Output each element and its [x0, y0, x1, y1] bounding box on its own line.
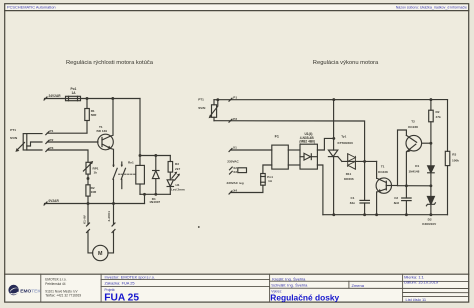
- svg-text:230VAC: 230VAC: [227, 159, 239, 163]
- junction: [332, 137, 335, 140]
- svg-text:BD 139: BD 139: [97, 129, 108, 133]
- svg-text:X4: X4: [233, 189, 237, 193]
- junction: [86, 97, 89, 100]
- potentiometer PT1 right: [211, 100, 218, 121]
- svg-text:F1: F1: [275, 134, 279, 138]
- svg-text:SV/N: SV/N: [198, 106, 206, 110]
- svg-text:10R: 10R: [91, 190, 97, 194]
- svg-text:Petrilenská 44: Petrilenská 44: [45, 282, 65, 286]
- speck: [198, 226, 200, 228]
- svg-text:C2: C2: [394, 196, 398, 200]
- wire top rail: [214, 100, 448, 152]
- svg-text:P1: P1: [233, 95, 237, 99]
- junction: [154, 154, 157, 157]
- pin P3: [46, 146, 54, 152]
- wires F1 to U1: [288, 150, 300, 165]
- wire U1 to Ty1: [317, 138, 333, 150]
- junction: [363, 213, 366, 216]
- connector PT1 left: [18, 134, 43, 150]
- svg-text:2k7: 2k7: [175, 167, 180, 171]
- filter F1: [272, 145, 289, 169]
- relay coil Re1: [136, 156, 145, 195]
- svg-text:Investor:: Investor:: [105, 274, 120, 279]
- wire P1 to R1: [47, 132, 87, 134]
- svg-text:230VAC reg: 230VAC reg: [227, 181, 244, 185]
- junction: [405, 213, 408, 216]
- wire T1 emitter down: [111, 149, 114, 167]
- junction: [112, 202, 115, 205]
- svg-text:KC238: KC238: [408, 125, 418, 129]
- svg-text:EMOTEK s.r.o.: EMOTEK s.r.o.: [45, 277, 66, 281]
- svg-text:56R: 56R: [91, 113, 97, 117]
- capacitor C2: [402, 186, 411, 215]
- svg-text:Dátum: 15.10.2019: Dátum: 15.10.2019: [404, 280, 439, 285]
- wire T1 collector: [111, 99, 113, 137]
- pin X3: [230, 170, 238, 174]
- logo EMOTEK: [8, 285, 41, 295]
- wire P2 to T1 base: [47, 141, 98, 143]
- pin P1 right: [229, 95, 237, 101]
- svg-text:Regulácia rýchlosti motora kot: Regulácia rýchlosti motora kotúča: [66, 60, 154, 66]
- transistor T2: [406, 135, 431, 185]
- junction: [363, 160, 366, 163]
- svg-text:D11: D11: [346, 172, 352, 176]
- svg-text:Tel/fax: +421 32 7716919: Tel/fax: +421 32 7716919: [45, 294, 81, 298]
- svg-text:SV/N: SV/N: [10, 136, 18, 140]
- svg-text:Kreslil: Ing. Švehla: Kreslil: Ing. Švehla: [272, 277, 306, 282]
- junction: [429, 213, 432, 216]
- svg-text:1N4007: 1N4007: [149, 200, 160, 204]
- zener D2: [426, 186, 435, 215]
- svg-text:K300/10V: K300/10V: [422, 222, 437, 226]
- svg-text:2-AVK1: 2-AVK1: [107, 211, 111, 222]
- pin P2 right: [229, 117, 237, 122]
- wire to motor K1-AV: [87, 204, 93, 253]
- fuse Po1 right: [261, 165, 272, 185]
- junction: [429, 142, 432, 145]
- svg-text:(MB2 4B6): (MB2 4B6): [299, 139, 315, 143]
- pin P1: [46, 129, 54, 135]
- address block: [45, 277, 81, 297]
- jumper X2-X3: [238, 168, 247, 173]
- svg-text:8n8: 8n8: [394, 201, 400, 205]
- junction: [87, 202, 90, 205]
- resistor R1: [85, 99, 90, 134]
- svg-text:0V2AR: 0V2AR: [49, 199, 60, 203]
- svg-text:EMOTEK spol s.r.o.: EMOTEK spol s.r.o.: [121, 274, 155, 279]
- svg-text:R3: R3: [452, 153, 456, 157]
- investor column: [105, 274, 155, 292]
- wire bottom component rail: [140, 194, 170, 203]
- wire bottom rail right: [323, 214, 448, 216]
- diode D1: [152, 156, 159, 195]
- potentiometer RP1: [83, 162, 92, 174]
- svg-text:Projekt:: Projekt:: [105, 288, 116, 292]
- svg-text:100k: 100k: [452, 158, 459, 162]
- svg-text:KT508/400: KT508/400: [338, 141, 354, 145]
- diode D1 right: [428, 143, 435, 186]
- wire 24V rail corner down: [139, 99, 141, 156]
- svg-text:P3: P3: [50, 146, 54, 150]
- svg-text:EMOTEK: EMOTEK: [20, 288, 41, 294]
- wire 24V2AR rail: [44, 97, 140, 100]
- pin X4: [229, 189, 237, 195]
- junction: [332, 98, 335, 101]
- wire 0V2AR rail: [44, 202, 145, 205]
- wire X1 to F1: [231, 149, 272, 151]
- junction: [111, 97, 114, 100]
- junction: [143, 193, 146, 196]
- svg-text:Názov súboru: Ukážka_riadkov_d: Názov súboru: Ukážka_riadkov_d informači…: [396, 6, 467, 10]
- motor M: [93, 245, 108, 260]
- resistor R2 right: [429, 100, 434, 144]
- svg-text:FUA 25: FUA 25: [104, 293, 139, 304]
- junction: [375, 213, 378, 216]
- svg-text:Regulačné dosky: Regulačné dosky: [270, 293, 339, 303]
- svg-text:C1: C1: [351, 196, 355, 200]
- junction: [139, 154, 142, 157]
- svg-text:M: M: [98, 251, 103, 257]
- svg-text:PT1: PT1: [198, 97, 204, 101]
- svg-text:84n: 84n: [350, 201, 355, 205]
- wire P2 long to C1: [214, 121, 365, 201]
- transistor T1: [98, 134, 114, 150]
- kreslil column: [271, 275, 439, 303]
- svg-text:K1-AV: K1-AV: [83, 215, 87, 224]
- svg-text:Led 2mm: Led 2mm: [171, 187, 185, 191]
- svg-text:P2: P2: [50, 138, 54, 142]
- junction: [405, 184, 408, 187]
- junction: [154, 193, 157, 196]
- wire X4 to fuse: [231, 185, 263, 192]
- svg-text:D1: D1: [415, 164, 419, 168]
- title block grid: [41, 274, 469, 302]
- svg-text:T2: T2: [411, 119, 415, 123]
- wire to motor 2-AVK1: [108, 204, 115, 253]
- junction: [216, 98, 219, 101]
- svg-text:Zákazka:: Zákazka:: [105, 280, 121, 285]
- diac D11: [348, 154, 356, 170]
- svg-text:47k: 47k: [436, 115, 441, 119]
- wire P3 to RP1: [47, 150, 88, 162]
- relay contact K1: [113, 162, 136, 204]
- optocoupler U1: [300, 144, 317, 169]
- svg-text:P1: P1: [50, 129, 54, 133]
- svg-text:Regulácia výkonu motora: Regulácia výkonu motora: [313, 60, 379, 66]
- resistor R3: [168, 156, 173, 173]
- junction: [429, 98, 432, 101]
- svg-text:T1: T1: [381, 165, 385, 169]
- pin P2: [46, 138, 54, 144]
- svg-text:PT1: PT1: [10, 128, 16, 132]
- svg-text:Schválil: Ing. Švehla: Schválil: Ing. Švehla: [271, 283, 308, 288]
- svg-text:Zmena: Zmena: [352, 283, 365, 288]
- wire gate D11 T1: [342, 160, 377, 162]
- wire base node horizontal: [398, 185, 431, 187]
- triac Ty1: [328, 100, 342, 215]
- wire U1 to bottom rail: [317, 165, 323, 215]
- svg-text:91101 Nové Mesto n.V: 91101 Nové Mesto n.V: [45, 289, 78, 293]
- svg-text:X1: X1: [233, 146, 237, 150]
- svg-text:1N4148: 1N4148: [409, 169, 420, 173]
- svg-text:R2: R2: [436, 110, 440, 114]
- transistor T1 right: [376, 161, 397, 214]
- wire coil top rail: [140, 155, 170, 157]
- svg-text:X3: X3: [233, 170, 237, 174]
- fuse Po1: [66, 96, 81, 100]
- capacitor C1: [360, 200, 369, 214]
- wire T1 base to T2 base column: [398, 130, 407, 186]
- svg-text:Re1: Re1: [128, 160, 134, 164]
- svg-text:24V2AR: 24V2AR: [49, 94, 62, 98]
- junction: [429, 184, 432, 187]
- svg-text:1k: 1k: [94, 171, 98, 175]
- junction: [332, 213, 335, 216]
- svg-text:KC238: KC238: [378, 170, 388, 174]
- resistor R3 right: [445, 151, 450, 214]
- LED H1: [167, 172, 179, 194]
- pin X1: [229, 146, 237, 152]
- svg-text:R3: R3: [175, 162, 179, 166]
- svg-text:FUA 25: FUA 25: [122, 280, 135, 285]
- svg-text:KR206: KR206: [344, 177, 354, 181]
- svg-text:List čislo 11: List čislo 11: [406, 297, 427, 302]
- pin X2: [230, 166, 238, 170]
- svg-text:1A: 1A: [72, 91, 77, 95]
- svg-text:PCSCHEMATIC Automation: PCSCHEMATIC Automation: [7, 4, 56, 9]
- resistor R2: [86, 174, 90, 203]
- svg-text:Ty1: Ty1: [341, 135, 346, 139]
